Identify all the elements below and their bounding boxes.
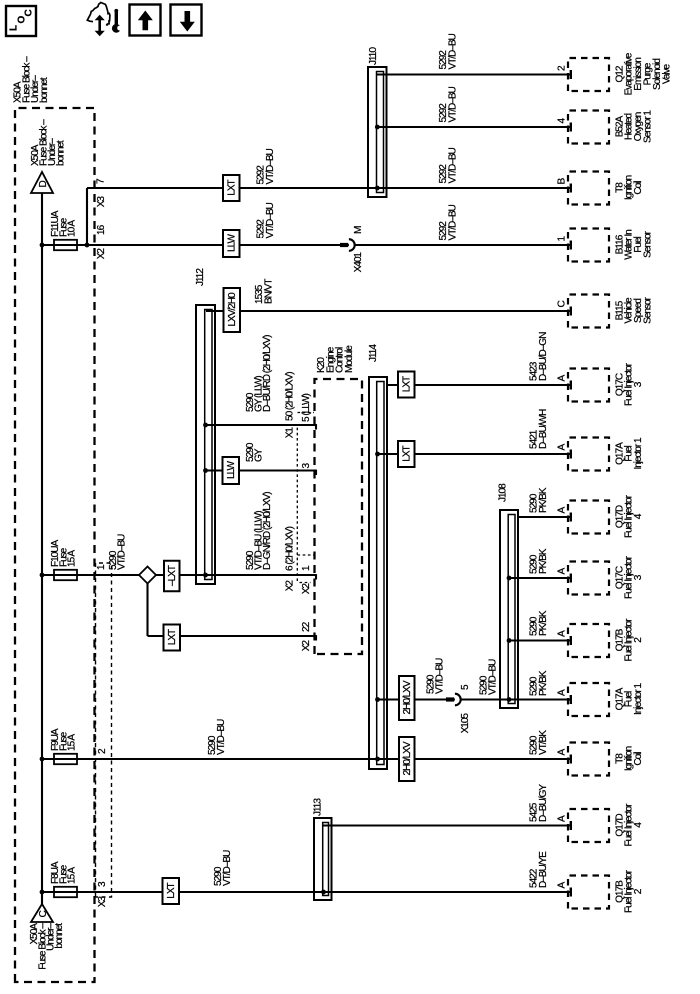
svg-text:J114: J114 <box>368 344 379 362</box>
svg-text:X1: X1 <box>285 427 296 439</box>
connector Q12 Evaporative Emission Purge Solenoid Valve (pin 2) <box>568 58 609 91</box>
svg-text:X3: X3 <box>97 896 108 908</box>
inline connector X105 <box>446 697 454 701</box>
svg-text:15 A: 15 A <box>67 734 78 751</box>
svg-text:A: A <box>557 568 568 575</box>
alt-pin sub box dashed edge <box>298 554 315 556</box>
svg-text:L: L <box>9 25 20 31</box>
svg-text:VT/D–BU: VT/D–BU <box>448 86 459 122</box>
svg-text:10 A: 10 A <box>67 220 78 237</box>
svg-text:bonnet: bonnet <box>56 140 67 166</box>
svg-text:2: 2 <box>97 748 108 754</box>
svg-text:15 A: 15 A <box>67 867 78 884</box>
ECM pin stub <box>315 470 317 475</box>
svg-text:BN/VT: BN/VT <box>264 279 275 304</box>
svg-text:VT/D–BU: VT/D–BU <box>265 202 276 238</box>
svg-text:LXV/2H0: LXV/2H0 <box>227 292 238 326</box>
option box LXV/2H0 <box>224 288 241 332</box>
svg-text:D–BU/D–GN: D–BU/D–GN <box>538 332 549 381</box>
svg-text:A: A <box>557 882 568 889</box>
splice pack J112 <box>196 305 215 584</box>
svg-text:A: A <box>557 815 568 822</box>
wire drop F10UA to ECM pin 6 (X=419) <box>42 574 317 576</box>
svg-text:15 A: 15 A <box>67 550 78 567</box>
svg-text:X3: X3 <box>96 196 107 208</box>
svg-text:PK/BK: PK/BK <box>538 610 549 636</box>
svg-text:X401: X401 <box>353 252 364 273</box>
connector T8 Ignition Coil (pin A) <box>568 743 609 776</box>
connector B115 Vehicle Speed Sensor (pin C) <box>568 295 609 328</box>
svg-text:6 (2H0/LXV): 6 (2H0/LXV) <box>285 526 296 571</box>
alt-pin sub box dashed edge <box>298 412 315 414</box>
wire J114 to Q17A (X=540) <box>375 452 380 457</box>
svg-text:D–BU/RD (2H0/LXV): D–BU/RD (2H0/LXV) <box>262 335 273 412</box>
connector Q17A Fuel Injector 1 (pin A) <box>568 683 609 716</box>
connector T8 Ignition Coil (pin B) <box>568 172 609 205</box>
connector Q17B Fuel Injector 2 (pin A) <box>568 624 609 657</box>
svg-text:J108: J108 <box>498 483 509 502</box>
wire J114 to Q17C (X=609) <box>387 384 572 386</box>
svg-text:A: A <box>557 689 568 696</box>
junction dot at J113 <box>321 890 326 895</box>
svg-text:50 (2H0/LXV): 50 (2H0/LXV) <box>285 372 296 421</box>
svg-text:1: 1 <box>557 236 568 242</box>
svg-text:D–BU/WH: D–BU/WH <box>538 409 549 449</box>
svg-text:VT/D–BU: VT/D–BU <box>448 147 459 183</box>
svg-text:PK/BK: PK/BK <box>538 670 549 696</box>
option box 2H0/LXV <box>399 676 415 720</box>
svg-text:A: A <box>557 749 568 756</box>
svg-text:C: C <box>557 301 568 308</box>
svg-text:D–BU/GY: D–BU/GY <box>538 784 549 822</box>
svg-text:3: 3 <box>97 881 108 887</box>
option box 2H0/LXV on T8 drop <box>399 737 415 781</box>
connector Q17A Fuel Injector 1 (pin A) <box>568 438 609 471</box>
wire drop F8UA to Q17B (X=102) <box>42 891 571 893</box>
svg-text:LLW: LLW <box>226 461 237 479</box>
svg-text:X2: X2 <box>285 580 296 592</box>
svg-text:5: 5 <box>460 684 471 690</box>
option box LLW <box>223 230 240 257</box>
off-page connector triangle D <box>31 172 53 193</box>
splice pack J113 <box>314 818 332 900</box>
svg-text:GY: GY <box>254 448 265 462</box>
svg-text:B: B <box>557 178 568 185</box>
svg-text:A: A <box>557 630 568 637</box>
alt-pin sub box bottom edge (below wire) <box>300 582 311 584</box>
svg-text:VT/D–BU: VT/D–BU <box>117 534 128 570</box>
wire J108 to Q17D (X=477) <box>518 516 571 518</box>
icon vehicle height pictogram with double arrow and wrench <box>87 3 110 25</box>
svg-text:M: M <box>353 226 364 234</box>
svg-text:1: 1 <box>96 564 107 570</box>
off-page connector triangle C <box>31 904 53 922</box>
svg-text:4: 4 <box>633 513 644 519</box>
svg-text:X2: X2 <box>96 248 107 260</box>
svg-text:bonnet: bonnet <box>39 77 50 103</box>
svg-text:VT/D–BU: VT/D–BU <box>222 850 233 886</box>
wire J110 to B52A (X=867) <box>375 125 380 130</box>
wire J108 to Q17B (X=353.5) <box>507 638 512 643</box>
svg-text:LXT: LXT <box>401 445 412 461</box>
svg-text:A: A <box>557 375 568 382</box>
option box LXT on pin-22 branch <box>164 625 181 651</box>
svg-text:VT/D–BU: VT/D–BU <box>435 658 446 694</box>
fuse F11UA 10 A <box>40 243 45 248</box>
wire J110 to Q12 (X=919) <box>377 73 571 75</box>
wire drop J113 to Q17D (X=168.5) <box>322 824 571 826</box>
svg-text:LXT: LXT <box>167 629 178 645</box>
option box -LXT <box>164 561 180 592</box>
wire J108 to Q17C (X=416) <box>507 576 512 581</box>
connector strip X3 dashed (below fuse block) <box>96 563 112 897</box>
svg-text:7: 7 <box>96 178 107 184</box>
svg-text:16: 16 <box>96 224 107 235</box>
svg-text:Sensor: Sensor <box>643 230 654 257</box>
svg-text:Injector 1: Injector 1 <box>633 683 644 715</box>
ECM alt-pin dashed rail <box>296 425 298 582</box>
svg-text:VT/D–BU: VT/D–BU <box>265 148 276 184</box>
svg-text:J112: J112 <box>195 268 206 286</box>
svg-text:VT/D–BU: VT/D–BU <box>448 204 459 240</box>
svg-text:Injector 1: Injector 1 <box>633 437 644 469</box>
wire J114 through X105 and J108 to Q17A (X=294.5) <box>375 697 380 702</box>
svg-text:LLW: LLW <box>226 234 237 252</box>
ECM pin stub <box>315 574 317 579</box>
splice diamond on F10UA drop <box>139 567 156 584</box>
fuse block X50A dashed outline <box>15 108 95 982</box>
svg-text:Valve: Valve <box>661 63 672 84</box>
ECM K20 dashed box <box>315 379 363 654</box>
wire J112 to B115 (X=683) <box>206 310 571 312</box>
svg-text:1: 1 <box>301 565 312 571</box>
svg-text:22: 22 <box>301 621 312 632</box>
branch wire F11UA to X3 pin 7 (X=806) <box>86 188 88 245</box>
junction dot branch to X3-7 <box>85 243 90 248</box>
icon LOC box <box>6 6 36 36</box>
bus wire from triangle C to triangle D <box>41 193 43 904</box>
option box LLW on pin-3 wire <box>223 457 240 484</box>
connector Q17B Fuel Injector 2 (pin A) <box>568 876 609 909</box>
svg-text:3: 3 <box>301 463 312 469</box>
svg-text:LXT: LXT <box>226 179 237 195</box>
option box LXT on F8UA drop <box>163 878 180 904</box>
svg-text:D: D <box>38 181 49 188</box>
ECM pin stub <box>315 635 317 640</box>
svg-text:LXT: LXT <box>401 376 412 392</box>
connector Q17C Fuel Injector 3 (pin A) <box>568 369 609 402</box>
wire J112 to ECM pin 50 (X=569) <box>203 423 208 428</box>
splice pack J110 <box>368 67 387 197</box>
svg-text:4: 4 <box>557 118 568 124</box>
splice pack J114 <box>369 377 387 769</box>
svg-text:3: 3 <box>633 574 644 580</box>
junction dot at J112 <box>203 573 208 578</box>
svg-text:4: 4 <box>633 822 644 828</box>
svg-text:2: 2 <box>633 888 644 894</box>
svg-text:Sensor: Sensor <box>643 296 654 323</box>
connector Q17D Fuel Injector 4 (pin A) <box>568 501 609 534</box>
junction dot at J110 <box>375 186 380 191</box>
icon up-arrow button <box>130 5 161 36</box>
svg-text:J110: J110 <box>368 47 379 65</box>
branch wire from diamond to ECM pin 22 (X=358) <box>146 584 148 637</box>
option box LXT <box>398 372 415 398</box>
svg-text:X105: X105 <box>460 713 471 734</box>
svg-text:3: 3 <box>633 381 644 387</box>
svg-text:VT/D–BU: VT/D–BU <box>488 659 499 695</box>
svg-text:Module: Module <box>344 345 355 373</box>
wire drop F9UA through J114 to T8 (X=235) <box>42 758 571 760</box>
option box LXT <box>223 175 240 201</box>
fuse F8UA 15 A <box>40 890 45 895</box>
option box LXT <box>398 441 415 467</box>
svg-text:–LXT: –LXT <box>167 565 178 586</box>
svg-text:Coil: Coil <box>633 181 644 195</box>
svg-text:A: A <box>557 444 568 451</box>
svg-text:LXT: LXT <box>166 882 177 898</box>
connector B116 Water In Fuel Sensor (pin 1) <box>568 229 609 262</box>
svg-text:2H0/LXV: 2H0/LXV <box>402 680 413 714</box>
connector Q17C Fuel Injector 3 (pin A) <box>568 562 609 595</box>
icon down-arrow button <box>171 5 202 36</box>
svg-text:D–BU/YE: D–BU/YE <box>538 851 549 888</box>
svg-text:2: 2 <box>633 637 644 643</box>
svg-text:VT/D–BU: VT/D–BU <box>216 719 227 755</box>
wire drop F11UA to B116 (X=749) <box>42 244 571 246</box>
svg-text:D–GN/RD (2H0/LXV): D–GN/RD (2H0/LXV) <box>262 492 273 570</box>
svg-text:bonnet: bonnet <box>54 923 65 949</box>
connector B52A Heated Oxygen Sensor 1 (pin 4) <box>568 111 609 144</box>
svg-text:VT/D–BU: VT/D–BU <box>448 33 459 69</box>
svg-text:Coil: Coil <box>633 752 644 766</box>
svg-text:VT/BK: VT/BK <box>538 730 549 755</box>
svg-text:J113: J113 <box>313 798 324 816</box>
ECM pin stub <box>315 424 317 429</box>
fuse F10UA 15 A <box>40 573 45 578</box>
junction dot at J108 <box>507 697 512 702</box>
svg-text:Sensor 1: Sensor 1 <box>643 110 654 143</box>
splice pack J108 <box>500 510 518 708</box>
connector Q17D Fuel Injector 4 (pin A) <box>568 809 609 842</box>
svg-text:PK/BK: PK/BK <box>538 487 549 513</box>
inline connector X401 <box>340 243 348 247</box>
svg-text:A: A <box>557 507 568 514</box>
svg-text:PK/BK: PK/BK <box>538 548 549 574</box>
svg-text:C: C <box>38 911 49 918</box>
svg-text:5 (LLW): 5 (LLW) <box>301 394 312 422</box>
junction dot at J114 <box>375 757 380 762</box>
wire J112 to ECM pin 3 (X=523.5) <box>203 468 208 473</box>
svg-text:2H0/LXV: 2H0/LXV <box>402 741 413 775</box>
svg-text:C: C <box>24 9 35 16</box>
svg-text:X2: X2 <box>301 583 312 595</box>
svg-text:X2: X2 <box>301 640 312 652</box>
svg-text:2: 2 <box>557 65 568 71</box>
fuse F9UA 15 A <box>40 757 45 762</box>
